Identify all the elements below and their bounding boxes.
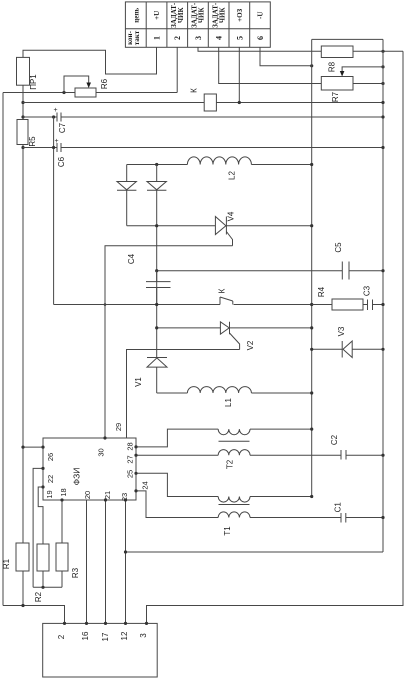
svg-text:21: 21 — [103, 491, 112, 499]
table cell 4 net "ЗАДАТЧИК" — [211, 2, 226, 28]
pin number 18 — [59, 488, 68, 496]
junction R6 wiper tie — [62, 91, 65, 94]
junction pin27 at IC edge — [134, 454, 137, 457]
diode V3 — [312, 341, 383, 358]
resistor R4 — [312, 299, 368, 310]
junction pin28 at IC edge — [134, 445, 137, 448]
junction pin23 at IC bottom — [124, 498, 127, 501]
wire R6 to pin2 — [96, 47, 177, 92]
contact number 16 — [81, 631, 90, 640]
junction C6 line end on x=383 — [381, 146, 384, 149]
svg-text:V4: V4 — [227, 211, 236, 221]
wire pin1 to PR1 top — [23, 47, 157, 74]
label V2 — [246, 340, 255, 350]
wire pin22 down to R2/R3 bottoms — [33, 468, 43, 587]
wire pin4 to R7 — [219, 47, 322, 83]
diode V5 (left of pair) — [117, 165, 136, 226]
transformer T2 secondary winding — [218, 450, 341, 456]
wire R1 bottom to ground line — [22, 571, 24, 606]
label К contact — [218, 288, 227, 293]
resistor R5 — [17, 120, 28, 145]
capacitor C1 — [341, 513, 383, 523]
wire R2 bottom stub — [42, 571, 44, 587]
svg-text:25: 25 — [125, 470, 134, 478]
label R6 — [100, 78, 109, 89]
capacitor C3 — [368, 300, 384, 311]
junction K line end on x=383 — [381, 101, 384, 104]
transformer T1 secondary winding — [218, 512, 341, 518]
wire pin5 stub — [238, 47, 240, 102]
svg-text:6: 6 — [256, 36, 265, 40]
svg-text:ЧИК: ЧИК — [218, 7, 226, 24]
junction T1 top on -U bus — [310, 495, 313, 498]
pin number 29 — [114, 423, 123, 431]
label C5 — [334, 242, 343, 253]
junction pin22 at IC edge — [41, 467, 44, 470]
wire R7 right — [353, 83, 383, 85]
label C4 — [127, 253, 136, 264]
capacitor C4 — [146, 271, 171, 305]
junction pin24 at IC edge — [134, 489, 137, 492]
inductor L1 — [157, 387, 312, 393]
svg-text:C4: C4 — [127, 253, 136, 264]
wire K contact line left — [54, 304, 220, 306]
wire right rail x=403 — [147, 51, 404, 623]
junction V2 line left — [155, 326, 158, 329]
svg-text:19: 19 — [45, 490, 54, 498]
svg-text:C5: C5 — [334, 242, 343, 253]
pin number 24 — [141, 481, 150, 489]
svg-text:+: + — [54, 107, 58, 114]
svg-text:R8: R8 — [328, 61, 337, 72]
wire pin23 net to x=383 bottom — [126, 551, 384, 553]
label R8 — [328, 61, 337, 72]
svg-text:3: 3 — [194, 36, 203, 40]
svg-text:R2: R2 — [34, 591, 43, 602]
wire V2 gate to pin29 — [127, 350, 240, 439]
junction box contact 16 — [85, 622, 88, 625]
label L2 — [228, 171, 237, 180]
wire pin28 to T2 top — [136, 429, 218, 447]
svg-text:2: 2 — [57, 634, 66, 639]
label C7 — [58, 122, 67, 133]
wire pin3 to R8 — [198, 47, 321, 51]
resistor R1 — [16, 543, 29, 571]
pin number 20 — [83, 491, 92, 499]
pin 30 junction on IC top — [103, 436, 106, 439]
junction V3 left on -U bus — [310, 348, 313, 351]
junction pin19 at IC edge — [41, 485, 44, 488]
junction R7 right on x=383 bus — [381, 82, 384, 85]
junction box contact 3 — [145, 622, 148, 625]
svg-text:5: 5 — [235, 36, 244, 40]
svg-text:ПР1: ПР1 — [29, 74, 38, 90]
svg-text:R4: R4 — [317, 286, 326, 297]
svg-text:T1: T1 — [223, 526, 232, 536]
junction diode pair top — [155, 163, 158, 166]
junction L2 line right on -U bus — [310, 163, 313, 166]
svg-text:2: 2 — [173, 36, 182, 40]
label R3 — [71, 567, 80, 578]
table cell 2 net "ЗАДАТЧИК" — [170, 2, 185, 28]
svg-text:+: + — [55, 138, 59, 145]
svg-text:27: 27 — [125, 455, 134, 463]
transformer T2 primary winding — [218, 429, 312, 435]
label T2 — [226, 459, 235, 469]
wire R8 right to x=403 rail — [353, 50, 403, 52]
svg-text:ЧИК: ЧИК — [198, 7, 206, 24]
svg-text:R3: R3 — [71, 567, 80, 578]
svg-text:V3: V3 — [337, 326, 346, 336]
capacitor C6 — [23, 143, 383, 152]
junction L1 right on -U bus — [310, 391, 313, 394]
wire pin21 to box contact 17 — [105, 500, 107, 623]
wire pin27 to T2 secondary — [136, 454, 218, 456]
junction R1 bottom on ground line — [21, 604, 24, 607]
output box body — [43, 623, 158, 677]
wire pin20 to box contact 16 — [86, 500, 88, 623]
wire -U bus top link y=39.4 — [312, 38, 383, 40]
wire pin25 to T1 top — [136, 473, 218, 496]
contact number 3 — [139, 633, 148, 638]
junction pin26 at rail — [21, 446, 24, 449]
junction pin18 at IC bottom — [60, 498, 63, 501]
svg-text:29: 29 — [114, 423, 123, 431]
svg-text:28: 28 — [125, 442, 134, 450]
label C1 — [334, 502, 343, 513]
wire pin24 to T1 secondary — [136, 491, 218, 518]
junction V4 line end on -U bus — [310, 224, 313, 227]
junction V3 right on x=383 — [381, 348, 384, 351]
label V3 — [337, 326, 346, 336]
wire C5 line — [157, 270, 383, 272]
polarity mark C7 — [54, 107, 58, 114]
rheostat R7 — [321, 77, 353, 91]
capacitor C5 — [342, 262, 349, 280]
label L1 — [224, 398, 233, 407]
pin number 21 — [103, 491, 112, 499]
svg-text:R6: R6 — [100, 78, 109, 89]
label R7 — [331, 91, 340, 102]
table cell 1 net "+U" — [153, 11, 161, 20]
junction pin6 on -U bus — [310, 64, 313, 67]
svg-text:R1: R1 — [2, 558, 11, 569]
junction pin5 on K line — [238, 101, 241, 104]
pin number 28 — [125, 442, 134, 450]
svg-text:такт: такт — [133, 30, 141, 45]
rheostat R6 — [64, 76, 96, 97]
wire pin23 to box contact 12 — [125, 500, 127, 623]
svg-text:C2: C2 — [330, 434, 339, 445]
thyristor V4 — [215, 217, 311, 246]
table header cell text "цепь" — [133, 8, 141, 23]
IC U1 ФЗИ body — [43, 438, 136, 500]
svg-text:C7: C7 — [58, 122, 67, 133]
transformer T2 core — [219, 440, 250, 442]
svg-text:T2: T2 — [226, 459, 235, 469]
wire pin6 to -U bus — [260, 47, 312, 66]
thyristor V2 — [220, 322, 311, 350]
junction C2 right on x=383 — [381, 454, 384, 457]
pin number 26 — [46, 453, 55, 461]
junction V4 line at x=156.7 — [155, 224, 158, 227]
label T1 — [223, 526, 232, 536]
pin number 30 — [97, 448, 106, 456]
wire V4 anode line — [127, 225, 216, 227]
svg-text:24: 24 — [141, 481, 150, 489]
svg-text:L1: L1 — [224, 398, 233, 407]
svg-text:17: 17 — [101, 632, 110, 641]
svg-text:К: К — [190, 88, 199, 93]
resistor R2 — [37, 544, 49, 571]
svg-text:4: 4 — [215, 36, 224, 40]
label К coil — [190, 88, 199, 93]
junction pin25 at IC edge — [134, 472, 137, 475]
junction box contact 12 — [124, 622, 127, 625]
junction R8 right on x=383 bus — [381, 50, 384, 53]
svg-text:ЧИК: ЧИК — [177, 7, 185, 24]
svg-text:C3: C3 — [363, 285, 372, 296]
wire -U bus vertical x=311.7 — [311, 39, 313, 496]
junction C4 bottom on contact line — [155, 303, 158, 306]
junction box contact 17 — [104, 622, 107, 625]
label R5 — [28, 136, 37, 147]
contact number 2 — [57, 634, 66, 639]
table contact numbers 1-6 — [153, 36, 266, 40]
junction C6 bridge — [52, 146, 55, 149]
wire R5 bottom long vertical x=23 — [22, 145, 24, 544]
svg-text:1: 1 — [153, 36, 162, 40]
svg-text:30: 30 — [97, 448, 106, 456]
svg-text:22: 22 — [46, 475, 55, 483]
pin number 23 — [120, 493, 129, 501]
junction pin21 at IC bottom — [104, 498, 107, 501]
junction C7 line at x=23 — [21, 115, 24, 118]
capacitor C7 — [23, 113, 383, 122]
svg-text:R5: R5 — [28, 136, 37, 147]
svg-text:ФЗИ: ФЗИ — [72, 468, 82, 486]
diode V6 (right of pair) — [147, 165, 166, 358]
svg-text:20: 20 — [83, 491, 92, 499]
wire R3 bottom stub — [61, 571, 63, 587]
junction C7 line end on x=383 — [381, 115, 384, 118]
junction T2 top on -U bus — [310, 428, 313, 431]
wire x=53.6 vertical C7 to K-contact line — [53, 117, 55, 305]
connector table XT1 frame — [125, 2, 270, 47]
label C3 — [363, 285, 372, 296]
label R4 — [317, 286, 326, 297]
wire left ground line to box contact 2 — [3, 606, 65, 624]
junction C5 right on x=383 — [381, 269, 384, 272]
junction y552 on pin23 wire — [124, 550, 127, 553]
resistor R3 — [56, 543, 68, 571]
label R2 — [34, 591, 43, 602]
junction pin26 at IC edge — [41, 446, 44, 449]
pin number 22 — [46, 475, 55, 483]
junction C7/C6 bridge top — [52, 115, 55, 118]
table cell 6 net "-U" — [257, 12, 265, 19]
junction C1 right on x=383 — [381, 516, 384, 519]
svg-text:R7: R7 — [331, 91, 340, 102]
transformer T1 core — [219, 504, 250, 506]
label V1 — [134, 377, 143, 387]
pin number 19 — [45, 490, 54, 498]
wire R2-R3 bottom tie — [33, 586, 62, 588]
svg-text:C1: C1 — [334, 502, 343, 513]
wire pin18 to R3 — [61, 500, 63, 543]
wire pin19 to R2 top — [38, 487, 43, 544]
wire left rail x=3 — [2, 93, 4, 606]
label C6 — [57, 156, 66, 167]
contact number 12 — [120, 631, 129, 640]
transformer T1 primary winding — [218, 497, 312, 503]
label ПР1 — [29, 74, 38, 90]
arrow R7 wiper — [340, 71, 345, 77]
svg-text:V1: V1 — [134, 377, 143, 387]
resistor R8 — [321, 46, 353, 58]
wire R7 wiper feed — [342, 67, 383, 73]
diode V1 — [147, 358, 167, 394]
arrow R6 wiper — [86, 83, 91, 89]
svg-text:16: 16 — [81, 631, 90, 640]
junction K line at x=23 — [21, 101, 24, 104]
svg-text:26: 26 — [46, 453, 55, 461]
wire R6 line left — [3, 92, 75, 94]
svg-text:18: 18 — [59, 488, 68, 496]
table header cell text "кон-такт" — [126, 30, 141, 45]
pin number 25 — [125, 470, 134, 478]
table cell 5 net "+ОЗ" — [236, 8, 244, 21]
svg-text:+U: +U — [153, 11, 161, 20]
wire pin26 to x=23 net — [23, 446, 43, 448]
label R1 — [2, 558, 11, 569]
relay contact K — [220, 297, 312, 305]
capacitor C2 — [341, 450, 383, 460]
svg-text:L2: L2 — [228, 171, 237, 180]
wire K coil line — [23, 102, 383, 104]
junction contact line on -U bus — [310, 303, 313, 306]
svg-text:V2: V2 — [246, 340, 255, 350]
label C2 — [330, 434, 339, 445]
label ФЗИ — [72, 468, 82, 486]
wire V4 gate to pin30 — [105, 246, 233, 438]
junction wiper on x=383 bus — [381, 65, 384, 68]
svg-text:3: 3 — [139, 633, 148, 638]
table cell 3 net "ЗАДАТЧИК" — [191, 2, 206, 28]
svg-text:К: К — [218, 288, 227, 293]
wire PR1 bottom vertical — [22, 85, 24, 119]
junction box contact 2 — [63, 622, 66, 625]
inductor L2 — [127, 157, 312, 165]
svg-text:+ОЗ: +ОЗ — [236, 8, 244, 21]
junction C5 line left — [155, 269, 158, 272]
pin number 27 — [125, 455, 134, 463]
junction gate line crossing — [104, 303, 107, 306]
wire +U bus vertical x=383 — [382, 39, 384, 552]
label V4 — [227, 211, 236, 221]
junction C6 line at x=23 — [21, 146, 24, 149]
svg-text:-U: -U — [257, 12, 265, 19]
svg-text:C6: C6 — [57, 156, 66, 167]
fuse PR1 — [17, 57, 30, 85]
contact number 17 — [101, 632, 110, 641]
polarity mark C6 — [55, 138, 59, 145]
junction R2 bottom — [41, 586, 44, 589]
wire V2 anode line — [157, 327, 221, 329]
svg-text:цепь: цепь — [133, 8, 141, 23]
junction C3 right on x=383 — [381, 303, 384, 306]
svg-text:12: 12 — [120, 631, 129, 640]
junction V2 line end on -U bus — [310, 326, 313, 329]
relay coil K — [204, 94, 216, 111]
